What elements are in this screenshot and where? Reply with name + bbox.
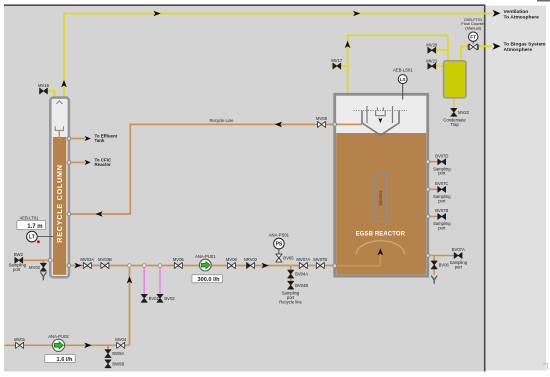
svg-text:LS: LS	[400, 77, 406, 82]
svg-text:EGSB REACTOR: EGSB REACTOR	[356, 231, 406, 237]
svg-text:MV05: MV05	[173, 257, 185, 262]
junction BV02 tie-in	[142, 264, 146, 268]
svg-text:MV07A: MV07A	[296, 257, 310, 262]
wire BV07C stub	[430, 188, 438, 190]
display pump PU01 flow	[192, 275, 223, 284]
valve MV22	[451, 108, 470, 116]
flow arrow vent header 1	[153, 11, 160, 17]
svg-text:port: port	[13, 267, 21, 272]
svg-text:1.7 m: 1.7 m	[27, 224, 42, 230]
valve BW9B	[105, 360, 125, 368]
sludge bed dome	[357, 241, 405, 254]
flow arrow recycle return	[95, 211, 102, 217]
label to biogas system	[493, 41, 547, 53]
svg-text:LT: LT	[29, 235, 35, 241]
wire BV04 sampling drop	[290, 266, 292, 289]
instrument LT with display	[17, 215, 54, 243]
svg-text:MV04: MV04	[115, 337, 127, 342]
svg-text:BV07B: BV07B	[435, 208, 448, 213]
reactor inlet pipe (internal)	[336, 253, 380, 266]
valve MV05	[173, 257, 185, 269]
nozzle column sampling left	[48, 258, 52, 262]
svg-text:BV07C: BV07C	[435, 181, 448, 186]
svg-text:BV05: BV05	[283, 256, 294, 261]
valve MV16	[38, 83, 50, 94]
wire biogas vent header (column top to ventilation)	[64, 14, 492, 98]
svg-text:BW9A: BW9A	[112, 351, 124, 356]
wire BW2 sampling line	[23, 259, 51, 261]
svg-text:(Manual): (Manual)	[465, 25, 481, 30]
EGSB reactor vessel	[335, 94, 428, 276]
valve BW9A	[105, 350, 125, 358]
label recycle line	[210, 118, 235, 123]
svg-text:MV22: MV22	[458, 110, 470, 115]
svg-text:Recycle line: Recycle line	[279, 299, 302, 304]
svg-text:ANA-PU02: ANA-PU02	[48, 334, 69, 339]
valve BV03	[157, 294, 175, 302]
reactor recycle draw-off (internal)	[336, 123, 362, 125]
check valve NRV02	[244, 257, 258, 269]
svg-text:Trap: Trap	[450, 122, 459, 127]
valve MV08 recycle line	[316, 116, 328, 127]
junction feed tie-in	[128, 264, 132, 268]
flow arrow vent header 2	[353, 11, 360, 17]
instrument FT	[469, 32, 478, 41]
svg-text:BV03: BV03	[164, 296, 175, 301]
svg-text:MV21: MV21	[426, 58, 438, 63]
wire condensate trap to biogas system	[461, 46, 492, 60]
svg-text:Recycle Line: Recycle Line	[210, 118, 235, 123]
svg-text:To Atmosphere: To Atmosphere	[504, 15, 540, 21]
wire recycle line (reactor to column)	[69, 124, 334, 214]
nozzle column to CFIC	[67, 161, 71, 165]
flow arrow reactor inlet	[262, 263, 269, 269]
valve MV20	[426, 42, 438, 53]
svg-text:MV16: MV16	[38, 83, 50, 88]
svg-text:MV20: MV20	[426, 42, 438, 47]
wire main recycle suction line	[69, 265, 334, 267]
nozzle column effluent	[67, 137, 71, 141]
valve MV02 with strainer	[29, 263, 46, 280]
wire BW9 drain drop	[107, 345, 109, 350]
valve MV21	[426, 58, 438, 69]
wire condensate trap drain	[453, 98, 455, 117]
wire BV07B stub	[430, 216, 438, 218]
gas-liquid separator funnel	[362, 111, 399, 136]
nozzle column suction	[67, 264, 71, 268]
svg-text:MV08: MV08	[316, 116, 328, 121]
wire feed line	[5, 344, 130, 346]
svg-text:BW9B: BW9B	[112, 361, 124, 366]
svg-text:BV02: BV02	[149, 296, 160, 301]
valve BV02	[141, 294, 159, 302]
nozzle reactor inlet	[333, 264, 337, 268]
separator down arrow	[378, 118, 382, 123]
flow arrow feed riser	[127, 276, 133, 283]
nozzle reactor recycle draw	[333, 123, 337, 127]
svg-text:Window: Window	[378, 190, 383, 206]
svg-text:BV06: BV06	[439, 263, 450, 268]
instrument LS	[393, 68, 413, 100]
label to effluent tank	[85, 133, 118, 143]
wire MV02 drain drop	[42, 260, 44, 263]
flow arrow reactor vent	[345, 41, 351, 48]
svg-text:ANA-PS01: ANA-PS01	[269, 232, 290, 237]
wire MV17 branch	[332, 65, 348, 67]
svg-text:Ventilation: Ventilation	[504, 9, 529, 15]
valve BV07C	[433, 181, 451, 203]
valve MV07A	[296, 257, 310, 269]
separator baffle ticks	[367, 106, 393, 123]
svg-text:BV07A: BV07A	[452, 247, 465, 252]
svg-text:MV17: MV17	[331, 58, 343, 63]
recycle column vessel	[50, 98, 69, 278]
valve BV07D	[433, 153, 451, 175]
svg-text:To Biogas System: To Biogas System	[504, 41, 547, 47]
svg-text:port: port	[438, 171, 446, 176]
svg-text:RECYCLE COLUMN: RECYCLE COLUMN	[55, 164, 64, 242]
valve BW2	[9, 252, 27, 272]
flow arrow column outlet	[74, 263, 81, 269]
svg-text:PS: PS	[276, 242, 283, 248]
separator dotted level line	[354, 110, 408, 112]
reactor inlet up arrow	[378, 248, 384, 255]
svg-text:port: port	[438, 198, 446, 203]
svg-text:Reactor: Reactor	[95, 162, 112, 167]
valve MV03A	[80, 257, 94, 269]
nozzle reactor BV07D	[426, 160, 430, 164]
flow arrow column vent	[61, 80, 67, 87]
valve MV04	[115, 337, 127, 349]
valve BV04B	[288, 281, 309, 289]
wire reactor bottom draw line	[430, 255, 455, 257]
window sight glass	[375, 175, 387, 222]
valve BV07B	[433, 208, 451, 230]
pump ANA-PU02	[48, 334, 69, 352]
svg-text:port: port	[455, 265, 463, 270]
instrument PS with valve BV05	[269, 232, 294, 262]
svg-text:BV04B: BV04B	[295, 283, 308, 288]
valve MV07B	[313, 257, 327, 269]
reactor label	[356, 231, 406, 237]
svg-text:BV07D: BV07D	[435, 153, 448, 158]
svg-text:MV02: MV02	[29, 265, 41, 270]
valve BV06 with strainer	[431, 261, 449, 284]
svg-text:MV03B: MV03B	[98, 257, 112, 262]
label to CFIC reactor	[85, 157, 112, 167]
wire CFIC stub	[71, 161, 85, 163]
flow counter FT valve	[468, 42, 478, 50]
svg-text:BV04A: BV04A	[295, 272, 308, 277]
flow arrow feed line	[84, 343, 91, 349]
svg-text:AEB-LT01: AEB-LT01	[19, 215, 39, 220]
label flow counter	[461, 17, 485, 30]
scrollbar corner mark	[543, 364, 548, 370]
wire MV16 branch	[39, 91, 55, 98]
flow arrow recycle line top	[275, 122, 282, 128]
pump ANA-PU01	[195, 254, 216, 271]
svg-text:ANA-PU01: ANA-PU01	[195, 254, 216, 259]
wire BV07D stub	[430, 161, 438, 163]
valve MV17	[331, 58, 343, 69]
svg-text:MV03A: MV03A	[80, 257, 94, 262]
recycle column label	[55, 164, 64, 242]
wire BV03 dosing line	[159, 266, 161, 296]
display pump PU02 flow	[45, 354, 76, 363]
junction BV03 tie-in	[158, 264, 162, 268]
svg-text:1.6 l/h: 1.6 l/h	[57, 357, 73, 363]
condensate trap vessel	[444, 61, 466, 98]
nozzle reactor bottom draw	[426, 254, 430, 258]
valve MV06	[226, 257, 238, 269]
svg-text:AEB-LS01: AEB-LS01	[393, 68, 413, 73]
wire reactor vent riser	[348, 35, 448, 93]
valve MV03B	[98, 257, 112, 269]
label condensate trap	[443, 118, 466, 127]
svg-text:BW2: BW2	[14, 252, 24, 257]
svg-text:MV07B: MV07B	[313, 257, 327, 262]
wire MV21 branch	[427, 65, 444, 67]
wire feed riser	[129, 266, 131, 346]
svg-text:NRV02: NRV02	[244, 257, 258, 262]
svg-text:Tank: Tank	[95, 138, 105, 143]
svg-text:300.0 l/h: 300.0 l/h	[198, 277, 221, 283]
svg-text:port: port	[438, 226, 446, 231]
svg-text:MV01: MV01	[14, 337, 26, 342]
label sampling port recycle line	[279, 290, 302, 304]
svg-text:FT: FT	[470, 35, 476, 41]
svg-text:MV06: MV06	[226, 257, 238, 262]
wire effluent stub	[71, 138, 85, 140]
valve MV01	[14, 337, 26, 349]
valve BV04A	[288, 270, 309, 278]
wire BV06 drop	[433, 256, 435, 275]
svg-text:Atmosphere: Atmosphere	[504, 47, 533, 53]
label ventilation to atmosphere	[493, 9, 540, 21]
valve BV07A	[450, 247, 468, 269]
recycle column internals	[55, 101, 63, 139]
wire BV02 dosing line	[143, 266, 145, 296]
nozzle column recycle return	[67, 212, 71, 216]
separator gas cup	[376, 107, 386, 115]
nozzle reactor BV07C	[426, 188, 430, 192]
wire MV20 branch	[427, 49, 448, 51]
nozzle reactor BV07B	[426, 215, 430, 219]
